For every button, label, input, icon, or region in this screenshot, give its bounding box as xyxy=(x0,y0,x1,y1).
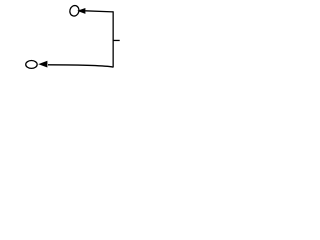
tick stub on vertical segment xyxy=(113,39,120,41)
node A (top ellipse) xyxy=(69,5,80,18)
arrowhead into node B xyxy=(40,62,47,67)
wire: right vertical edge segment xyxy=(112,11,114,67)
wire: bottom edge segment xyxy=(48,65,113,67)
node B (bottom ellipse) xyxy=(26,60,37,68)
arrowhead into node A xyxy=(79,9,85,13)
wire: top horizontal edge segment xyxy=(85,11,113,12)
